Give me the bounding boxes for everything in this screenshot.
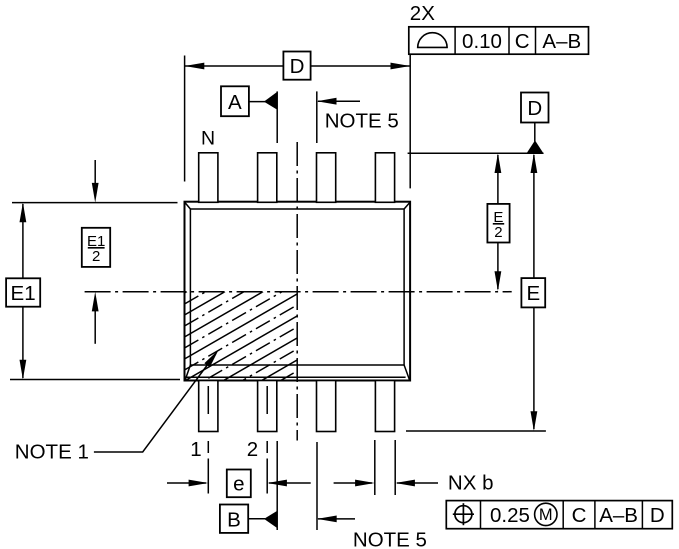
D left extension line xyxy=(184,56,186,182)
svg-text:E: E xyxy=(526,282,540,305)
pin 1 (bottom) xyxy=(199,381,218,432)
pin-bottom right horizontal extension line xyxy=(406,430,546,432)
svg-text:A–B: A–B xyxy=(542,30,581,53)
svg-text:D: D xyxy=(290,55,305,78)
label box e xyxy=(227,470,251,498)
svg-text:2X: 2X xyxy=(410,2,435,25)
svg-text:B: B xyxy=(227,508,241,531)
svg-text:D: D xyxy=(650,504,665,527)
feature control frame top xyxy=(409,27,589,54)
dimension e arrows xyxy=(167,482,206,484)
svg-text:NX b: NX b xyxy=(448,471,494,494)
dimension E line xyxy=(533,155,535,429)
package body outer outline xyxy=(185,202,411,381)
datum A symbol xyxy=(249,101,266,103)
datum D symbol (right) xyxy=(534,123,536,142)
label box D (top dimension) xyxy=(283,52,310,80)
svg-text:NOTE 5: NOTE 5 xyxy=(353,528,427,549)
svg-text:D: D xyxy=(527,97,542,120)
pin 2 centerline xyxy=(266,386,268,494)
dimension D line xyxy=(185,65,411,67)
note 5 bottom extension line xyxy=(316,442,318,530)
svg-text:0.10: 0.10 xyxy=(462,30,502,53)
pin 2 (top) xyxy=(258,153,277,203)
svg-text:N: N xyxy=(201,127,215,149)
vertical centerline xyxy=(296,142,298,441)
svg-text:0.25: 0.25 xyxy=(490,504,530,527)
note 5 bottom arrow xyxy=(318,518,355,520)
bottom-left horizontal extension line xyxy=(10,379,180,381)
FCF connector vertical line xyxy=(409,54,411,188)
dimension NX b arrows xyxy=(334,482,372,484)
svg-text:M: M xyxy=(539,506,553,524)
dimension E1 line xyxy=(22,204,24,378)
NX b left extension line xyxy=(374,440,376,495)
svg-text:2: 2 xyxy=(494,224,502,241)
svg-text:2: 2 xyxy=(92,248,100,265)
svg-text:2: 2 xyxy=(247,438,258,461)
datum B symbol xyxy=(248,518,265,520)
pin 4 (bottom) xyxy=(375,381,394,432)
pin 1 centerline xyxy=(207,386,209,494)
NX b right extension line xyxy=(394,440,396,495)
label box E1 xyxy=(6,278,40,306)
note 5 top extension line xyxy=(316,91,318,143)
svg-text:NOTE 5: NOTE 5 xyxy=(325,109,399,132)
label box E xyxy=(521,278,545,307)
feature control frame bottom xyxy=(446,501,672,529)
note 5 top arrow xyxy=(318,100,360,102)
dimension E1/2 upper arrow xyxy=(94,160,96,186)
top-left horizontal extension line xyxy=(12,202,178,204)
dimension E1/2 lower arrow xyxy=(94,308,96,344)
svg-text:A: A xyxy=(228,91,242,114)
pin 3 (bottom) xyxy=(317,381,336,432)
profile of surface symbol xyxy=(418,33,447,48)
pin-top right horizontal extension line xyxy=(408,152,544,154)
extension lines xyxy=(10,54,546,530)
circled M modifier xyxy=(535,503,557,525)
label box E/2 xyxy=(487,204,509,243)
datum A extension line xyxy=(276,91,278,143)
svg-text:C: C xyxy=(515,30,530,53)
pin 4 (top) xyxy=(375,153,394,203)
svg-text:1: 1 xyxy=(190,438,201,461)
pin 3 (top) xyxy=(317,153,336,203)
package body inner outline xyxy=(185,203,410,380)
svg-text:E1: E1 xyxy=(11,282,36,305)
pin 2 (bottom) xyxy=(258,381,277,432)
true position symbol xyxy=(455,506,472,523)
svg-text:NOTE 1: NOTE 1 xyxy=(15,441,89,464)
horizontal centerline xyxy=(85,291,512,293)
svg-text:C: C xyxy=(572,504,587,527)
svg-text:A–B: A–B xyxy=(599,504,638,527)
dimension E/2 line xyxy=(497,155,499,289)
note 1 leader xyxy=(94,362,210,452)
hatched region (note 1 area) xyxy=(185,228,298,447)
datum B extension line xyxy=(276,441,278,530)
svg-text:e: e xyxy=(233,473,244,496)
pin 1 (top) xyxy=(199,153,218,203)
label box E1/2 xyxy=(82,228,110,267)
